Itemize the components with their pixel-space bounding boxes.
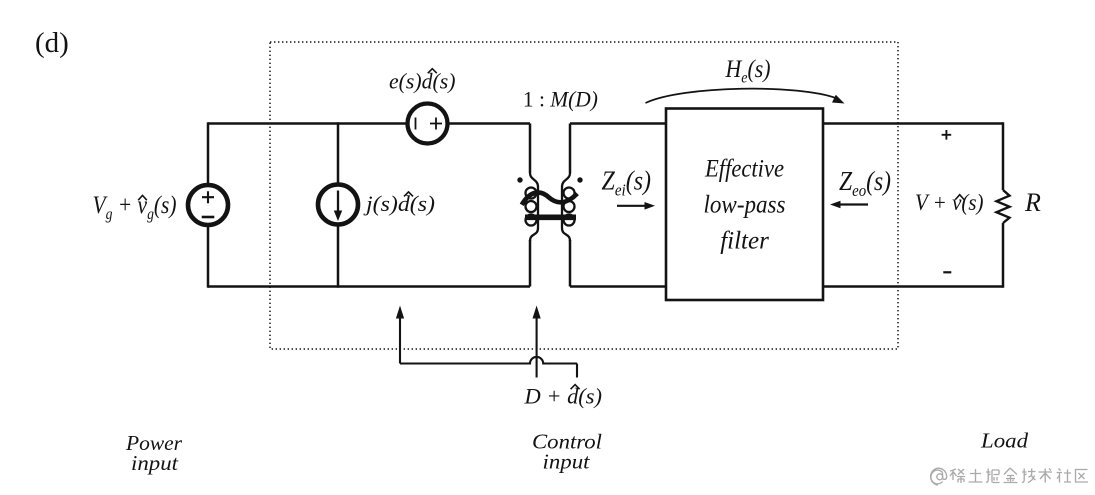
wire: bottom rail transformer to filter box [570,285,666,288]
transformer left lead bottom [529,240,532,287]
wire: Vg source bottom lead [207,226,210,288]
transformer left top S-curve [530,173,538,187]
wire: Vg source top lead [207,122,210,184]
arrow for Zeo(s) pointing left [839,203,868,205]
dashed boundary box of canonical model [270,42,898,349]
wire: load branch bottom lead [1002,223,1005,288]
transformer left lead top [529,124,532,174]
wire: top rail filter box to load [823,122,1003,125]
transformer right top S-curve [562,173,570,187]
arrow for Zei(s) pointing right [617,205,646,207]
wire: bottom rail filter box to load [823,285,1003,288]
transformer right lead top [569,124,572,174]
polarity + mark of e source [430,118,442,130]
polarity - mark of e source (rotated) [415,118,417,130]
ideal transformer 1:M(D) [517,124,582,287]
wire: current source bottom lead [337,225,340,288]
polarity dot right [577,177,582,182]
svg-text:Effective: Effective [704,156,784,183]
polarity dot left [517,177,522,182]
independent voltage source Vg+vg(s) [188,185,228,225]
dependent current source j(s)d(s) [318,185,358,225]
control arrow centre (to transformer) [536,317,538,378]
resistor R zigzag [997,190,1010,223]
svg-text:Zei(s): Zei(s) [602,166,652,200]
svg-text:V + v(s): V + v(s) [915,190,984,216]
control connector horizontal wire with hop [400,357,577,364]
control arrow left (to power stage) [399,317,401,364]
svg-text:Vg + vg(s): Vg + vg(s) [93,192,177,223]
output polarity + mark [942,130,952,140]
polarity - mark of Vg source [202,216,215,219]
svg-text:R: R [1024,188,1041,217]
svg-text:1 : M(D): 1 : M(D) [523,87,598,112]
wire: load branch top lead [1002,122,1005,190]
control input arrows [396,306,577,378]
svg-text:input: input [543,450,591,474]
wire: top rail left segment (from Vg top corner to e-source) [208,122,406,125]
transformer ideal-symbol wavy stroke [522,192,577,204]
svg-text:e(s)d(s): e(s)d(s) [389,69,456,94]
transformer left bottom S-curve [530,228,538,241]
wire: bottom rail left (Vg to transformer) [208,285,530,288]
transformer right winding loops [564,188,575,199]
control connector right stub [576,364,578,378]
polarity + mark of Vg source [202,191,214,203]
wire: top rail from e-source to transformer left terminal [449,122,530,125]
svg-text:j(s)d(s): j(s)d(s) [363,191,435,216]
wire: top rail transformer to filter box [570,122,666,125]
svg-text:filter: filter [720,228,769,255]
dependent voltage source e(s)d(s) [408,104,448,144]
watermark @xitu juejin community (drawn glyphs) [931,468,1088,485]
effective low-pass filter block [666,109,823,301]
transformer left winding loops [526,188,537,199]
svg-text:Load: Load [980,429,1029,453]
svg-text:D + d(s): D + d(s) [523,384,602,409]
svg-text:low-pass: low-pass [704,192,786,219]
transformer right lead bottom [569,240,572,287]
svg-text:(d): (d) [35,27,69,59]
svg-text:input: input [131,451,179,475]
transformer right bottom S-curve [562,228,570,241]
transformer core bar [525,215,576,221]
wire: current source top lead [337,122,340,185]
curved arrow for He(s) over the filter box [646,89,838,103]
svg-text:He(s): He(s) [725,56,771,87]
current direction arrow inside j source [337,191,339,213]
output polarity - mark [943,271,951,273]
